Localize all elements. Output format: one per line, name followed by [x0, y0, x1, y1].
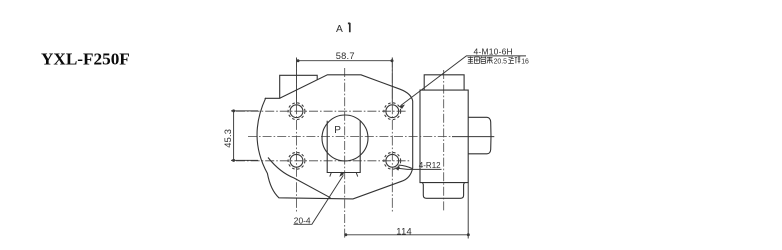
center line horizontal main: [248, 136, 452, 138]
center line hole column right: [391, 58, 393, 214]
view label bar: [348, 23, 350, 32]
bottom-left chamfer curve: [268, 158, 331, 198]
leader 4-R12: [396, 168, 442, 169]
label chinese depth note: [468, 57, 493, 64]
center line vertical central: [344, 68, 346, 238]
svg-text:45.3: 45.3: [223, 129, 233, 148]
bolt hole top-left: [288, 103, 305, 120]
side view right boss: [468, 117, 491, 154]
port circle P: [322, 115, 368, 161]
leader 4-M10-6H: [401, 56, 527, 106]
bolt hole bottom-right: [384, 152, 401, 169]
center line hole row bottom: [236, 160, 410, 162]
svg-text:20-4: 20-4: [294, 216, 311, 226]
dimension 58.7 line: [298, 60, 392, 62]
center line solid through right boss: [452, 136, 494, 138]
extension line right column upper: [391, 58, 393, 105]
svg-text:P: P: [334, 125, 341, 136]
center line hole column left: [296, 58, 298, 214]
svg-text:16: 16: [521, 58, 529, 65]
dimension 114 extension right: [467, 183, 469, 239]
svg-text:20.5: 20.5: [494, 58, 508, 65]
svg-text:4-M10-6H: 4-M10-6H: [474, 46, 513, 56]
svg-text:A: A: [336, 24, 343, 35]
extension line left column upper: [296, 58, 298, 105]
bolt hole bottom-left: [288, 152, 305, 169]
svg-text:114: 114: [396, 227, 412, 237]
side view body: [420, 90, 468, 183]
center line side view vertical: [443, 70, 445, 211]
leader 20-4: [294, 175, 344, 224]
port rect chamfer ticks: [330, 173, 358, 177]
side view bottom boss: [423, 183, 465, 199]
arc around bottom-right hole: [399, 165, 413, 169]
port rectangle: [327, 121, 360, 173]
top-left step boss: [280, 75, 318, 98]
svg-text:YXL-F250F: YXL-F250F: [41, 50, 130, 69]
dimension 45.3 line: [233, 111, 235, 160]
svg-text:4-R12: 4-R12: [419, 161, 441, 170]
dimension 114 line: [346, 234, 469, 236]
svg-text:58.7: 58.7: [336, 51, 355, 61]
front view plate outline: [257, 75, 413, 199]
side view top boss: [424, 75, 464, 90]
bolt hole top-right: [384, 103, 401, 120]
center line hole row top: [236, 110, 407, 112]
